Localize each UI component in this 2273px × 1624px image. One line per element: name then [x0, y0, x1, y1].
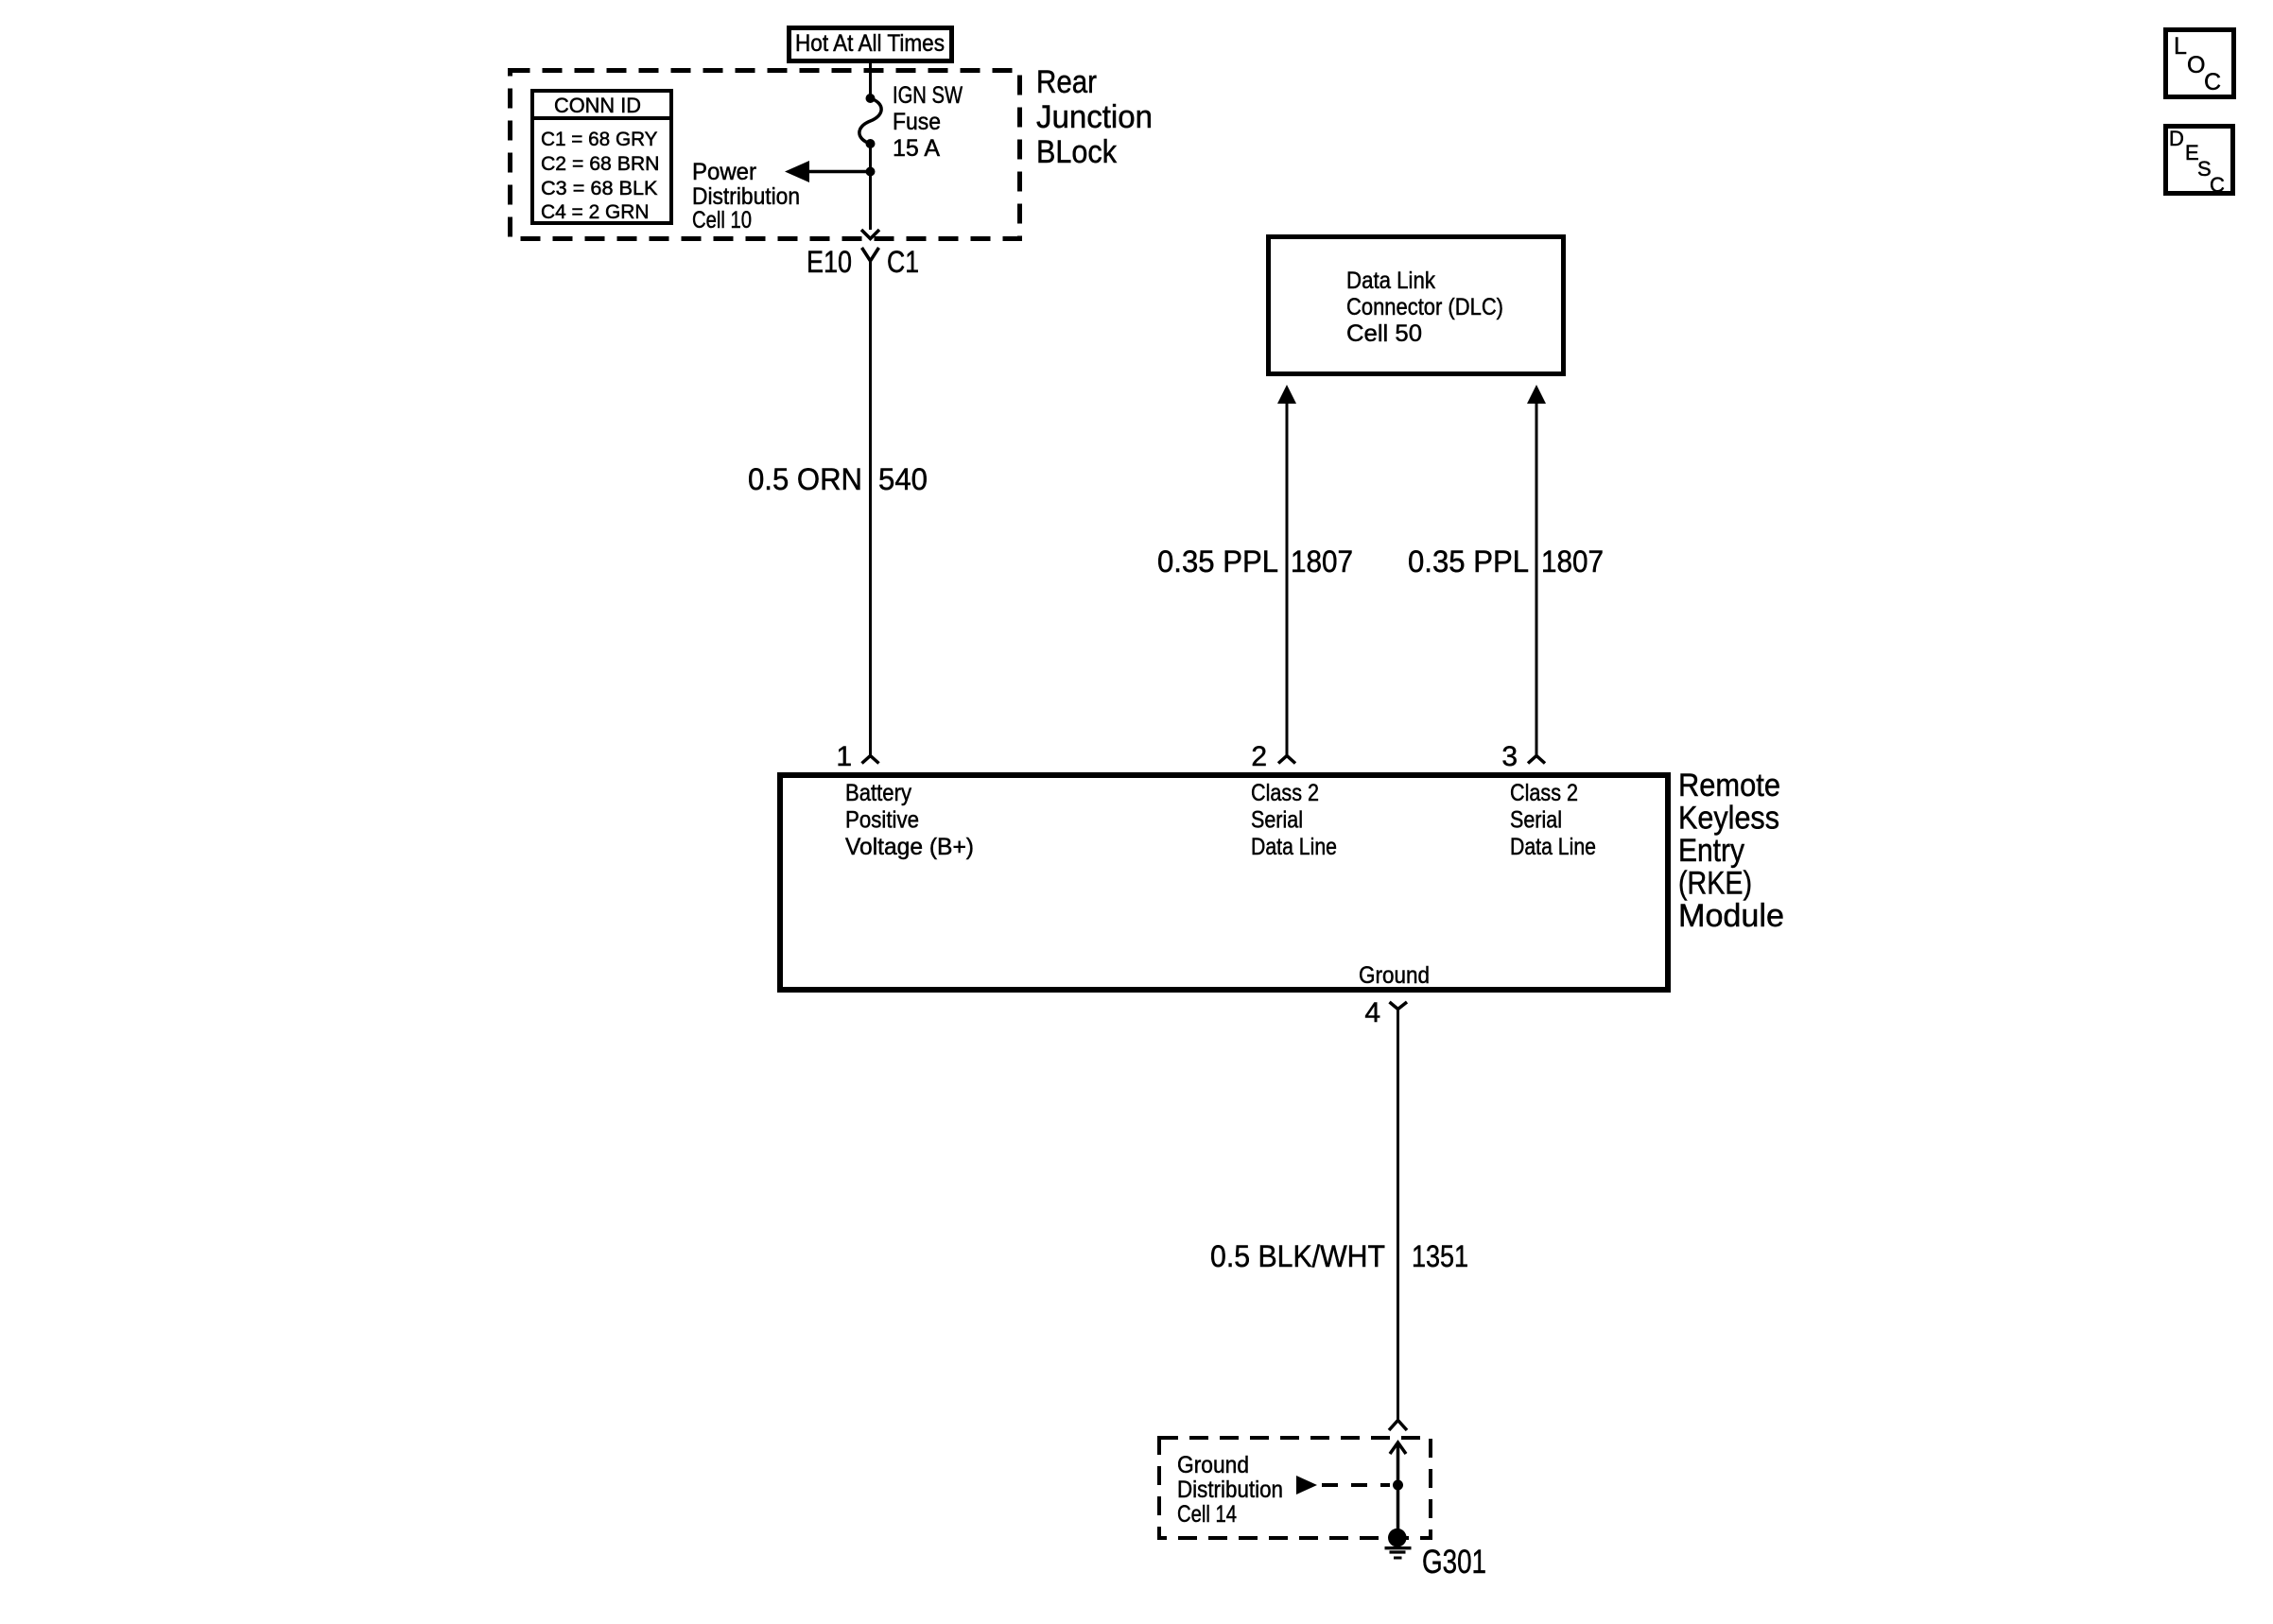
svg-text:Positive: Positive: [845, 807, 919, 834]
svg-text:L: L: [2174, 33, 2187, 60]
svg-text:D: D: [2169, 127, 2184, 150]
svg-text:C3 = 68 BLK: C3 = 68 BLK: [541, 178, 658, 199]
ground G301 symbol: [1388, 1529, 1407, 1547]
svg-text:2: 2: [1251, 741, 1267, 772]
svg-text:540: 540: [878, 462, 928, 496]
DESC box: [2166, 127, 2233, 194]
wire from Hot box to fuse: [869, 60, 872, 98]
junction dot on ground wire: [1393, 1480, 1403, 1491]
svg-text:(RKE): (RKE): [1678, 866, 1752, 902]
svg-text:0.35 PPL: 0.35 PPL: [1408, 544, 1529, 579]
svg-text:1807: 1807: [1541, 544, 1604, 579]
svg-text:Cell 14: Cell 14: [1177, 1501, 1237, 1528]
ground feed arrow into box: [1390, 1443, 1406, 1454]
svg-text:3: 3: [1501, 741, 1518, 772]
svg-text:Ground: Ground: [1177, 1452, 1249, 1478]
svg-text:BLock: BLock: [1036, 134, 1118, 170]
svg-text:Junction: Junction: [1036, 99, 1153, 135]
svg-text:1: 1: [836, 741, 852, 772]
svg-text:E10: E10: [807, 245, 852, 279]
svg-text:Fuse: Fuse: [893, 109, 941, 135]
svg-text:Keyless: Keyless: [1678, 801, 1779, 837]
svg-text:1807: 1807: [1291, 544, 1353, 579]
pin 2 connector chevron: [1278, 756, 1295, 764]
pin 1 connector chevron: [862, 756, 879, 764]
Hot At All Times box: [789, 28, 952, 61]
svg-text:CONN ID: CONN ID: [554, 94, 641, 117]
svg-text:C1: C1: [887, 245, 919, 279]
junction dot: [866, 167, 876, 177]
svg-text:0.35 PPL: 0.35 PPL: [1157, 544, 1278, 579]
svg-text:Class 2: Class 2: [1251, 780, 1319, 806]
svg-text:Serial: Serial: [1510, 807, 1562, 834]
svg-text:Distribution: Distribution: [1177, 1477, 1283, 1503]
Rear Junction Block dashed box: [511, 71, 1020, 239]
svg-text:Battery: Battery: [845, 780, 911, 806]
svg-text:1351: 1351: [1412, 1239, 1468, 1273]
svg-text:0.5 ORN: 0.5 ORN: [748, 462, 862, 496]
ground wire: [1397, 1009, 1399, 1420]
svg-text:C2 = 68 BRN: C2 = 68 BRN: [541, 153, 660, 175]
svg-text:Voltage (B+): Voltage (B+): [845, 834, 974, 860]
off page connector chevron: [1389, 1421, 1407, 1431]
CONN ID header separator: [530, 116, 673, 120]
svg-text:IGN SW: IGN SW: [893, 82, 963, 109]
E10 C1 connector fork: [862, 248, 879, 261]
svg-text:Cell 10: Cell 10: [692, 207, 752, 233]
Ground Distribution dashed box: [1159, 1438, 1431, 1538]
svg-text:O: O: [2187, 52, 2205, 78]
svg-text:Class 2: Class 2: [1510, 780, 1578, 806]
svg-text:Rear: Rear: [1036, 64, 1097, 100]
power distribution arrow: [806, 170, 871, 174]
wire fuse to junction: [869, 144, 872, 230]
svg-text:Data Line: Data Line: [1251, 834, 1337, 860]
class 2 wire pin2 to DLC: [1286, 401, 1289, 757]
svg-text:C: C: [2204, 69, 2221, 95]
svg-text:Cell 50: Cell 50: [1346, 320, 1422, 347]
LOC box: [2166, 30, 2234, 97]
svg-text:Power: Power: [692, 159, 756, 185]
RKE module box: [780, 775, 1668, 990]
svg-text:C1 = 68 GRY: C1 = 68 GRY: [541, 129, 658, 150]
fuse IGN SW 15A: [866, 94, 876, 103]
svg-text:Ground: Ground: [1359, 962, 1430, 989]
pin 4 connector fork: [1390, 1002, 1408, 1010]
svg-text:Module: Module: [1678, 898, 1784, 934]
svg-text:4: 4: [1364, 997, 1380, 1028]
svg-text:Connector (DLC): Connector (DLC): [1346, 294, 1503, 320]
svg-text:C4 = 2 GRN: C4 = 2 GRN: [541, 201, 650, 223]
svg-text:0.5 BLK/WHT: 0.5 BLK/WHT: [1210, 1239, 1385, 1273]
svg-text:Data Line: Data Line: [1510, 834, 1596, 860]
svg-text:Data Link: Data Link: [1346, 268, 1435, 294]
dashed reference arrow: [1296, 1476, 1317, 1494]
pin 3 connector chevron: [1528, 756, 1545, 764]
svg-text:Serial: Serial: [1251, 807, 1303, 834]
down open arrow at dashed box bottom: [861, 230, 879, 239]
svg-text:C: C: [2210, 173, 2225, 197]
svg-text:15 A: 15 A: [893, 135, 940, 162]
svg-text:Remote: Remote: [1678, 768, 1780, 803]
svg-text:Entry: Entry: [1678, 833, 1744, 869]
CONN ID table: [532, 91, 671, 223]
svg-text:Hot At All Times: Hot At All Times: [795, 30, 945, 57]
battery feed wire: [869, 261, 872, 757]
class 2 wire pin3 to DLC: [1536, 401, 1538, 757]
svg-text:Distribution: Distribution: [692, 183, 800, 210]
DLC box: [1269, 237, 1564, 374]
svg-text:G301: G301: [1422, 1544, 1486, 1581]
